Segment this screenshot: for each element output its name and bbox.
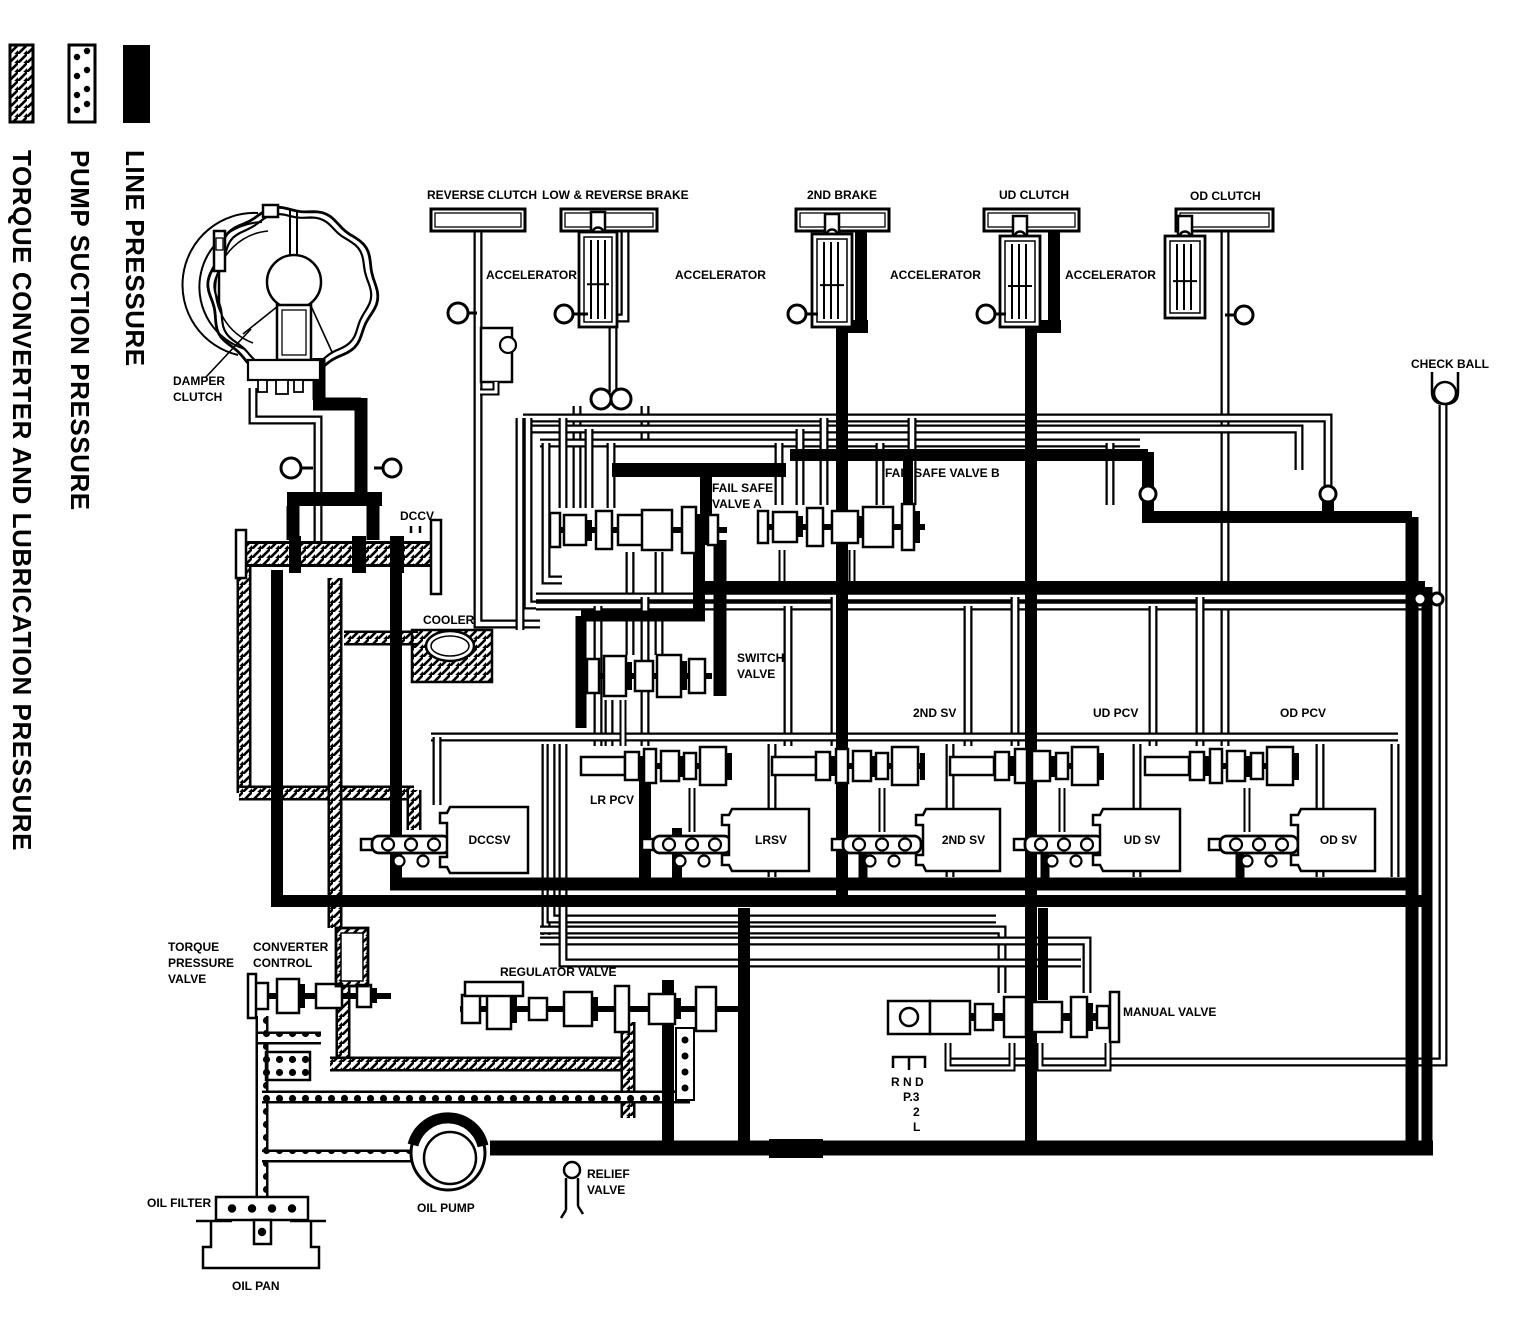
relief valve bbox=[564, 1162, 580, 1178]
svg-text:LINE PRESSURE: LINE PRESSURE bbox=[120, 150, 150, 367]
wire left nest 1 bbox=[528, 418, 592, 605]
check ball symbol bbox=[1432, 372, 1458, 404]
wire cell wall 3 bbox=[1133, 744, 1142, 877]
solenoid OD bbox=[1209, 839, 1221, 850]
solenoid box OD SV bbox=[1291, 809, 1375, 871]
wire UD down 1 bbox=[1048, 230, 1060, 328]
svg-text:LOW & REVERSE BRAKE: LOW & REVERSE BRAKE bbox=[542, 188, 689, 202]
valve fail safe A bbox=[552, 527, 727, 533]
converter control valve bbox=[336, 928, 368, 986]
wire feed B2 bbox=[796, 429, 805, 505]
strainer dotted block bbox=[266, 1052, 310, 1080]
box low reverse brake bbox=[561, 209, 657, 231]
svg-text:R N D: R N D bbox=[891, 1075, 924, 1089]
wire feed B5 bbox=[908, 418, 917, 505]
ball 2nd bbox=[797, 313, 818, 316]
wire feed 2nd1 bbox=[784, 606, 793, 746]
wire feed 2nd2 bbox=[831, 597, 840, 746]
svg-text:2ND BRAKE: 2ND BRAKE bbox=[807, 188, 877, 202]
svg-text:OD PCV: OD PCV bbox=[1280, 706, 1326, 720]
accumulator 2nd bbox=[825, 214, 839, 234]
wire A to switch 1 bbox=[626, 552, 635, 655]
wire cell wall 1 bbox=[768, 744, 777, 877]
wire feed B4 bbox=[876, 443, 885, 505]
wire top pair 1 bbox=[523, 418, 1328, 488]
wire T3b to switch bbox=[576, 616, 587, 728]
wire feed B1 bbox=[775, 443, 784, 505]
wire top pair 3 bbox=[540, 439, 1140, 448]
svg-text:CONTROL: CONTROL bbox=[253, 956, 312, 970]
svg-text:2ND SV: 2ND SV bbox=[913, 706, 956, 720]
svg-text:CHECK BALL: CHECK BALL bbox=[1411, 357, 1489, 371]
wire T3b bbox=[581, 611, 705, 622]
oil pump bbox=[411, 1116, 485, 1190]
svg-text:UD SV: UD SV bbox=[1124, 833, 1161, 847]
legend swatch torque converter pressure bbox=[10, 45, 33, 122]
wire right vertical 1 bbox=[1406, 517, 1419, 1142]
valve DCCV hatched spool bbox=[240, 541, 430, 567]
wire lube bottom horizontal bbox=[330, 1057, 628, 1072]
wire OD solenoid stub bbox=[1244, 788, 1251, 832]
wire bus T4 bbox=[390, 878, 1412, 891]
wire mid pair 2 bbox=[536, 602, 1430, 611]
svg-text:DAMPER: DAMPER bbox=[173, 374, 225, 388]
regulator top plate bbox=[465, 982, 523, 996]
wire left nest 2 bbox=[546, 443, 562, 580]
wire to manual valve 3 bbox=[551, 744, 996, 919]
wire regulator to bus bbox=[662, 980, 674, 1142]
svg-text:DCCSV: DCCSV bbox=[468, 833, 510, 847]
wire to manual valve 2 bbox=[540, 941, 1087, 993]
accumulator UD bbox=[1013, 216, 1027, 236]
check ball on top pair bbox=[1320, 486, 1336, 502]
box OD clutch bbox=[1176, 209, 1273, 231]
svg-text:OIL PAN: OIL PAN bbox=[232, 1279, 280, 1293]
wire UD to manual valve bbox=[1038, 908, 1048, 1000]
DCCV left flange bbox=[236, 530, 246, 578]
valve LR PCV bbox=[585, 763, 727, 769]
converter top nub bbox=[263, 205, 278, 217]
valve OD PCV bbox=[1148, 763, 1295, 769]
svg-text:ACCELERATOR: ACCELERATOR bbox=[486, 268, 577, 282]
wire converter out 2 bbox=[313, 398, 361, 411]
box 2nd brake bbox=[796, 209, 889, 231]
valve torque pressure bbox=[254, 993, 391, 999]
svg-text:P.3: P.3 bbox=[903, 1090, 920, 1104]
svg-text:OD CLUTCH: OD CLUTCH bbox=[1190, 189, 1261, 203]
wire cooler line down bbox=[390, 560, 402, 890]
wire feed OD2 bbox=[1196, 597, 1205, 746]
node UD jog bbox=[1025, 320, 1061, 333]
wire converter to DCCV bbox=[253, 388, 318, 546]
wire switch drain bbox=[620, 700, 627, 746]
ball on converter thick line bbox=[374, 467, 392, 470]
wire manual valve port 1 bbox=[948, 1043, 1012, 1068]
wire B drain 2 bbox=[849, 550, 856, 583]
wire low-rev accumulator stub bbox=[592, 230, 601, 240]
wire suction from torque pressure valve bbox=[258, 1032, 321, 1045]
torque pressure valve end plate bbox=[248, 974, 256, 1018]
wire lube vertical to converter control bbox=[328, 578, 343, 928]
svg-text:FAIL SAFE: FAIL SAFE bbox=[712, 481, 773, 495]
accumulator low-rev bbox=[591, 212, 605, 232]
valve switch bbox=[588, 673, 712, 679]
small accumulator reverse bbox=[481, 328, 512, 382]
wire reverse clutch line bbox=[478, 230, 540, 624]
wire fail safe B corner bbox=[1142, 452, 1154, 487]
svg-text:OD SV: OD SV bbox=[1320, 833, 1357, 847]
wire B supply drop bbox=[903, 460, 913, 505]
wire lube to DCCSV bbox=[407, 790, 422, 830]
wire below ball bbox=[1142, 500, 1154, 523]
wire to manual valve 1 bbox=[540, 930, 1002, 993]
converter base bbox=[248, 360, 320, 380]
wire converter out 3 bbox=[355, 398, 368, 498]
wire LR solenoid feed bbox=[672, 828, 682, 884]
svg-text:UD CLUTCH: UD CLUTCH bbox=[999, 188, 1069, 202]
ball on converter pipe bbox=[291, 467, 313, 470]
svg-text:TORQUE: TORQUE bbox=[168, 940, 219, 954]
wire cell wall 5 bbox=[1391, 744, 1400, 877]
svg-text:2: 2 bbox=[913, 1105, 920, 1119]
wire lube left wall bbox=[237, 548, 252, 793]
solenoid DCC bbox=[361, 839, 373, 850]
ball OD bbox=[1225, 314, 1244, 317]
wire mid pair 1 bbox=[536, 593, 1440, 602]
solenoid LR bbox=[642, 839, 654, 850]
svg-text:ACCELERATOR: ACCELERATOR bbox=[675, 268, 766, 282]
wire fail safe B supply bbox=[790, 449, 1148, 461]
wire feed UD2 bbox=[1011, 597, 1020, 746]
svg-text:ACCELERATOR: ACCELERATOR bbox=[1065, 268, 1156, 282]
wire B end down to switch valve bbox=[714, 540, 727, 696]
wire node to DCCV right bbox=[367, 506, 380, 540]
wire left nest 3 bbox=[516, 418, 525, 630]
junction ball right 1 bbox=[1414, 593, 1426, 605]
node converter junction bar bbox=[287, 492, 382, 506]
wire A supply drop bbox=[700, 476, 712, 545]
svg-text:SWITCH: SWITCH bbox=[737, 651, 784, 665]
oil pan bbox=[196, 1221, 326, 1268]
svg-text:PRESSURE: PRESSURE bbox=[168, 956, 234, 970]
svg-text:COOLER: COOLER bbox=[423, 613, 475, 627]
wire feed A2 bbox=[585, 429, 594, 508]
wire converter out 1 bbox=[313, 358, 326, 400]
wire left drop bbox=[542, 744, 551, 935]
wire low-rev right bbox=[613, 230, 625, 392]
svg-text:CONVERTER: CONVERTER bbox=[253, 940, 329, 954]
legend swatch line pressure bbox=[123, 45, 150, 123]
turbine hub circle bbox=[267, 255, 321, 309]
damper clutch cone lines bbox=[243, 306, 278, 334]
wire mid bus T3 bbox=[699, 581, 1425, 593]
DCCV top marks bbox=[411, 526, 420, 533]
legend swatch pump suction pressure bbox=[69, 45, 95, 122]
svg-text:VALVE A: VALVE A bbox=[712, 497, 762, 511]
svg-text:REVERSE CLUTCH: REVERSE CLUTCH bbox=[427, 188, 537, 202]
converter left inner layers bbox=[182, 213, 258, 355]
wire B drain 1 bbox=[779, 550, 786, 583]
wire feed LR1 bbox=[594, 606, 603, 746]
cooler bbox=[412, 630, 492, 682]
svg-text:VALVE: VALVE bbox=[168, 972, 206, 986]
box UD clutch bbox=[984, 209, 1079, 231]
wire suction vertical bbox=[256, 1016, 269, 1197]
converter top stem bbox=[290, 210, 297, 256]
svg-text:2ND SV: 2ND SV bbox=[942, 833, 985, 847]
solenoid box 2ND SV bbox=[916, 809, 1000, 871]
manual valve end bbox=[1110, 992, 1119, 1042]
svg-text:OIL FILTER: OIL FILTER bbox=[147, 1196, 212, 1210]
wire A to switch 2 bbox=[655, 552, 664, 655]
wire ball2 to bus bbox=[1322, 498, 1334, 517]
svg-text:DCCV: DCCV bbox=[400, 509, 434, 523]
wire right vertical 2 bbox=[1422, 587, 1433, 1142]
valve fail safe B bbox=[758, 524, 925, 530]
solenoid box LRSV bbox=[722, 809, 809, 871]
wire lube right vertical bbox=[621, 1022, 636, 1118]
svg-text:L: L bbox=[913, 1120, 920, 1134]
regulator spring dots bbox=[676, 1028, 694, 1100]
low-rev junction balls bbox=[591, 389, 611, 409]
wire cell wall 0 bbox=[433, 737, 442, 805]
solenoid box DCCSV bbox=[440, 807, 528, 873]
box reverse clutch bbox=[431, 209, 525, 231]
ball UD bbox=[986, 313, 1006, 316]
solenoid box UD SV bbox=[1093, 809, 1180, 871]
wire UD solenoid stub bbox=[1059, 788, 1066, 832]
wire feed A3 bbox=[607, 443, 616, 508]
svg-text:TORQUE CONVERTER AND LUBRICATI: TORQUE CONVERTER AND LUBRICATION PRESSUR… bbox=[7, 150, 37, 851]
wire feed OD1 bbox=[1149, 606, 1158, 746]
junction ball right 2 bbox=[1431, 593, 1443, 605]
shifter gate bbox=[893, 1057, 925, 1070]
DCCV end flange bbox=[431, 520, 441, 594]
oil filter bbox=[216, 1197, 308, 1220]
wire lube bottom bbox=[239, 786, 414, 801]
svg-text:FAIL SAFE VALVE B: FAIL SAFE VALVE B bbox=[885, 466, 1000, 480]
ball reverse bbox=[458, 312, 477, 315]
svg-text:LR PCV: LR PCV bbox=[590, 793, 634, 807]
ball low-rev bbox=[564, 313, 588, 316]
svg-text:RELIEF: RELIEF bbox=[587, 1167, 630, 1181]
wire OD solenoid stub bbox=[1236, 852, 1245, 884]
wire feed A1 bbox=[559, 418, 568, 508]
wire junction to fail safe A bbox=[573, 406, 582, 508]
wire suction to oil pump bbox=[262, 1150, 414, 1163]
valve UD PCV bbox=[953, 763, 1100, 769]
wire small accumulator drain bbox=[480, 382, 496, 392]
wire UD solenoid stub bbox=[1041, 852, 1050, 884]
wire node to DCCV left bbox=[287, 506, 300, 540]
converter left fitting bbox=[214, 231, 225, 271]
wire to manual valve 4 bbox=[563, 744, 1081, 963]
wire suction long horizontal bbox=[262, 1091, 690, 1104]
wire right upper bus bbox=[1142, 511, 1412, 523]
wire 2nd solenoid stub bbox=[859, 852, 868, 884]
svg-text:LRSV: LRSV bbox=[755, 833, 787, 847]
wire 2nd brake down 2 bbox=[836, 330, 848, 895]
valve manual spool bbox=[970, 1013, 1110, 1021]
node bottom bus blob bbox=[769, 1139, 823, 1158]
damper clutch piston bbox=[277, 305, 311, 360]
wire check ball drain bbox=[948, 405, 1443, 1062]
valve regulator bbox=[460, 1006, 740, 1012]
svg-text:VALVE: VALVE bbox=[737, 667, 775, 681]
wire top pair 2 bbox=[531, 429, 1299, 470]
valve manual bbox=[888, 1001, 930, 1034]
wire switch to LR PCV bbox=[605, 700, 614, 746]
wire UD down 2 bbox=[1025, 330, 1037, 1142]
wire 2nd brake down 1 bbox=[855, 230, 867, 328]
wire feed B6 bbox=[1106, 443, 1115, 505]
wire feed LR2 bbox=[641, 597, 650, 746]
svg-text:PUMP SUCTION PRESSURE: PUMP SUCTION PRESSURE bbox=[65, 150, 95, 511]
wire lube below converter control bbox=[336, 986, 351, 1064]
check ball on B corner bbox=[1140, 486, 1156, 502]
wire fail safe A supply bbox=[612, 463, 786, 477]
wire cell top line bbox=[431, 733, 1398, 742]
damper clutch leader line bbox=[206, 329, 251, 377]
valve 2nd SV bbox=[775, 763, 920, 769]
svg-text:OIL PUMP: OIL PUMP bbox=[417, 1201, 475, 1215]
wire cell wall 2 bbox=[946, 744, 955, 877]
svg-text:UD PCV: UD PCV bbox=[1093, 706, 1138, 720]
wire feed B3 bbox=[820, 418, 829, 505]
svg-text:MANUAL VALVE: MANUAL VALVE bbox=[1123, 1005, 1216, 1019]
torque converter shell bbox=[208, 207, 378, 375]
node 2nd brake jog bbox=[836, 320, 868, 333]
wire bottom bus bbox=[490, 1141, 1433, 1156]
wire feed UD1 bbox=[964, 606, 973, 746]
svg-text:CLUTCH: CLUTCH bbox=[173, 390, 222, 404]
wire LR solenoid stub bbox=[689, 788, 696, 832]
wire V3 down bbox=[738, 908, 750, 1142]
wire bus T5 bbox=[271, 895, 1425, 907]
wire A to T3b bbox=[693, 545, 705, 621]
svg-text:REGULATOR VALVE: REGULATOR VALVE bbox=[500, 965, 616, 979]
solenoid 2nd bbox=[832, 839, 844, 850]
wire LR PCV down bbox=[639, 766, 651, 884]
wire DCCV down left bbox=[271, 570, 283, 901]
solenoid UD bbox=[1014, 839, 1026, 850]
svg-text:VALVE: VALVE bbox=[587, 1183, 625, 1197]
wire cell wall 4 bbox=[1316, 744, 1325, 877]
accumulator OD bbox=[1178, 216, 1192, 236]
wire lube to cooler bbox=[344, 631, 418, 646]
wire 2nd solenoid stub bbox=[879, 788, 886, 832]
svg-text:ACCELERATOR: ACCELERATOR bbox=[890, 268, 981, 282]
wire manual valve port 2 bbox=[1040, 1043, 1108, 1068]
wire OD clutch line bbox=[1221, 232, 1230, 746]
wire junction to top pair bbox=[641, 406, 650, 443]
